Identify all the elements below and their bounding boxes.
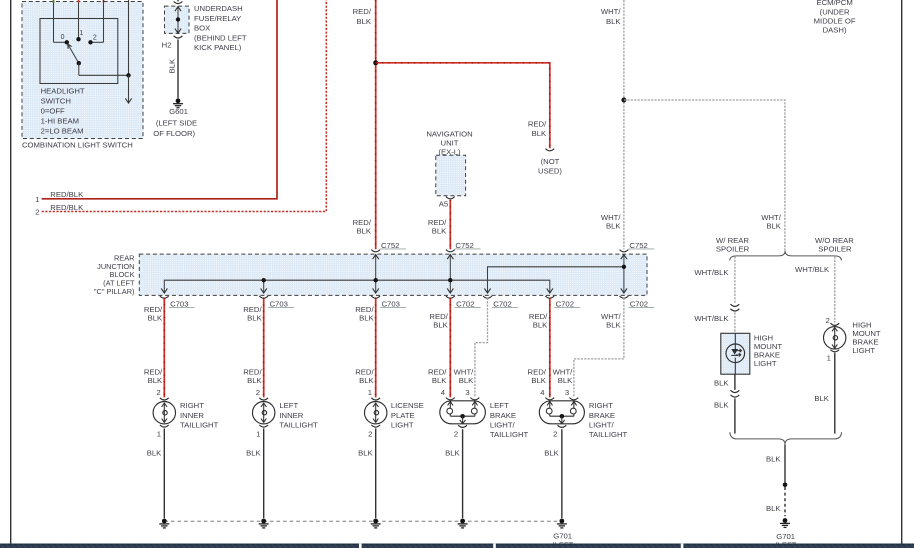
connector C752 entry arc left [371,250,380,252]
svg-text:DASH): DASH) [823,26,847,35]
svg-text:LICENSE: LICENSE [391,401,424,410]
svg-text:H2: H2 [162,41,172,50]
svg-text:WHT/: WHT/ [601,312,622,321]
fuse element with arrows and node [175,7,181,12]
wire WHT/BLK from C702 to left brake light [475,298,488,398]
ground symbol at x=462.6 [460,519,465,524]
svg-text:WHT/: WHT/ [601,7,622,16]
svg-text:MIDDLE OF: MIDDLE OF [814,16,856,25]
connector arc above fuse box [177,0,179,1]
svg-text:INNER: INNER [180,411,204,420]
svg-text:BLK: BLK [533,321,548,330]
ground G701 right [783,518,788,523]
svg-text:BLK: BLK [148,376,163,385]
svg-text:WHT/BLK: WHT/BLK [694,314,729,323]
switch common wire from top [128,0,130,75]
svg-text:BRAKE: BRAKE [490,411,516,420]
svg-text:BLK: BLK [558,376,573,385]
svg-text:2: 2 [368,429,372,438]
junction node on WHT/BLK trunk [621,98,626,103]
headlight switch inner box [40,19,118,84]
junction node on common wire [126,73,130,77]
svg-text:SPOILER: SPOILER [818,244,852,253]
svg-text:1: 1 [157,429,161,438]
svg-text:BLK: BLK [356,226,371,235]
ground bus dashed to G701 [164,520,562,522]
svg-text:BOX: BOX [194,24,210,33]
svg-text:RED/: RED/ [529,312,548,321]
terminal 1 node [76,37,80,41]
svg-text:1: 1 [35,195,39,204]
svg-text:BLK: BLK [766,454,781,463]
underdash fuse/relay box [165,6,190,33]
svg-text:RIGHT: RIGHT [180,401,204,410]
wire BLK to ground at x=164.3 [163,429,165,519]
svg-text:1: 1 [368,388,372,397]
svg-text:3: 3 [565,388,569,397]
wire BLK to merge brace [734,398,736,433]
svg-text:ECM/PCM: ECM/PCM [816,0,852,7]
terminal 0 node [65,40,69,44]
wire BLK right branch to merge brace [834,353,836,434]
brake/taillight dual bulb at x=462.6 [446,398,455,400]
internal wire C752 to C702 at 623.9 [623,255,625,293]
wire RED/BLK from junction block at x=375.7 [375,298,377,398]
svg-text:HEADLIGHT: HEADLIGHT [41,87,85,96]
svg-text:1: 1 [827,353,831,362]
wire RED/BLK from junction block at x=549.8 [549,298,551,398]
svg-text:BLK: BLK [714,379,729,388]
svg-text:BLK: BLK [359,314,374,323]
svg-text:LIGHT: LIGHT [754,359,777,368]
ground symbol at x=375.7 [373,519,378,524]
high mount brake light bulb w/o spoiler [830,323,839,325]
connector C702 exit arc 4 [620,296,629,298]
svg-text:(LEFT SIDE: (LEFT SIDE [156,119,197,128]
svg-text:2: 2 [553,429,557,438]
svg-text:4: 4 [441,388,446,397]
wire RED/BLK from junction block at x=263.7 [263,298,265,398]
svg-text:2: 2 [93,34,97,41]
svg-text:BLK: BLK [606,321,621,330]
svg-text:LIGHT: LIGHT [391,420,414,429]
svg-text:"C" PILLAR): "C" PILLAR) [94,287,135,296]
svg-text:TAILLIGHT: TAILLIGHT [279,420,318,429]
svg-text:RED/: RED/ [144,305,163,314]
connector C702 exit arc 1 [446,296,455,298]
LED lamp symbol [726,344,745,363]
bottom toolbar [0,544,914,548]
svg-text:LIGHT/: LIGHT/ [490,420,516,429]
svg-text:BLK: BLK [359,376,374,385]
taillight bulb at x=375.7 [371,398,380,400]
svg-text:0=OFF: 0=OFF [41,107,65,116]
svg-text:INNER: INNER [279,411,303,420]
svg-text:BLK: BLK [445,448,460,457]
connector C702 exit arc 3 [545,296,554,298]
wiper output wire [78,63,80,75]
rear junction block box [139,254,647,295]
svg-text:BLK: BLK [247,314,262,323]
wire RED/BLK from junction block at x=164.3 [163,298,165,398]
svg-text:BLK: BLK [432,226,447,235]
svg-text:UNDERDASH: UNDERDASH [194,4,243,13]
svg-text:RIGHT: RIGHT [589,401,613,410]
svg-text:LEFT: LEFT [279,401,298,410]
svg-text:2=LO BEAM: 2=LO BEAM [41,127,84,136]
wire BLK from merge to junction node [784,445,786,483]
junction block internal bus 1 [164,280,550,292]
wire BLK to ground at x=375.7 [375,429,377,519]
dashed BLK wire to ground [784,487,786,516]
svg-text:G601: G601 [169,107,188,116]
svg-text:SPOILER: SPOILER [716,244,750,253]
svg-text:BLK: BLK [606,17,621,26]
wire break connector arcs 2 [731,390,740,392]
spoiler branch split brace [730,251,842,261]
wire WHT/BLK trunk from top [623,0,625,249]
svg-text:RED/BLK: RED/BLK [50,203,84,212]
high mount brake light LED box [721,333,750,374]
svg-text:BLK: BLK [766,504,781,513]
svg-text:USED): USED) [538,167,562,176]
svg-text:1-HI BEAM: 1-HI BEAM [41,117,79,126]
junction block internal bus 2 [488,267,624,293]
ground symbol at x=263.7 [261,519,266,524]
wire RED/BLK main trunk from top [375,0,377,249]
svg-text:LIGHT/: LIGHT/ [589,420,615,429]
wire into switch terminal 2 (dark red feed) [103,0,105,3]
svg-text:BLK: BLK [433,321,448,330]
wire continuing down with arrow [128,75,130,102]
svg-text:WHT/BLK: WHT/BLK [795,265,830,274]
svg-text:OF FLOOR): OF FLOOR) [153,129,195,138]
junction node on red trunk [373,60,378,65]
svg-text:BLK: BLK [356,17,371,26]
wire WHT/BLK into high mount brake light [734,312,736,344]
svg-text:A5: A5 [439,200,448,209]
svg-text:BLK: BLK [532,129,547,138]
svg-text:0: 0 [61,34,65,41]
svg-text:BLK: BLK [714,400,729,409]
svg-text:NAVIGATION: NAVIGATION [426,129,472,138]
svg-text:2: 2 [35,208,39,217]
taillight bulb at x=164.3 [160,398,169,400]
svg-text:4: 4 [540,388,545,397]
svg-text:SWITCH: SWITCH [41,97,71,106]
svg-text:BLK: BLK [147,448,162,457]
svg-text:RED/: RED/ [528,119,547,128]
svg-text:TAILLIGHT: TAILLIGHT [180,420,219,429]
svg-text:(NOT: (NOT [541,157,560,166]
bus junction nodes [262,278,266,282]
connector C752 entry arc middle [446,250,455,252]
merge brace [730,432,842,444]
svg-text:(UNDER: (UNDER [820,7,850,16]
taillight bulb at x=263.7 [259,398,268,400]
svg-text:RED/: RED/ [429,312,448,321]
svg-text:BLK: BLK [432,376,447,385]
svg-text:BLK: BLK [606,222,621,231]
combination light switch box [22,2,143,139]
ground symbol at x=164.3 [162,519,167,524]
svg-text:3: 3 [465,388,469,397]
wire break connector arcs [731,304,740,306]
svg-text:TAILLIGHT: TAILLIGHT [589,430,628,439]
svg-text:BLK: BLK [544,448,559,457]
svg-text:2: 2 [256,388,260,397]
wire RED/BLK from navigation unit [449,200,451,250]
svg-text:TAILLIGHT: TAILLIGHT [490,430,529,439]
wire BLK from led box [734,374,736,390]
navigation unit box [436,155,466,196]
not used terminal arc [545,149,554,151]
svg-text:G701: G701 [553,532,572,541]
svg-text:BLK: BLK [766,222,781,231]
svg-text:BLK: BLK [531,376,546,385]
junction node on ground wire [783,483,788,488]
wire BLK to ground at x=561.85 [561,429,563,518]
wire into switch terminal 1 (red feed) [78,0,80,3]
svg-text:RED/BLK: RED/BLK [50,190,84,199]
svg-text:LIGHT: LIGHT [852,346,875,355]
svg-text:RED/: RED/ [353,7,372,16]
internal exit arrows [263,280,265,292]
svg-text:FUSE/RELAY: FUSE/RELAY [194,14,241,23]
left border frame line [10,0,12,544]
wire 2 RED/BLK horizontal dotted [42,0,327,212]
brake/taillight dual bulb at x=561.8499999999999 [545,398,554,400]
svg-text:2: 2 [156,388,160,397]
svg-text:COMBINATION LIGHT SWITCH: COMBINATION LIGHT SWITCH [22,140,133,149]
svg-text:UNIT: UNIT [441,138,459,147]
wire 1 RED/BLK horizontal [42,0,277,199]
svg-text:LEFT: LEFT [490,401,509,410]
svg-text:1: 1 [79,30,83,37]
svg-text:BLK: BLK [247,376,262,385]
svg-text:BLK: BLK [168,58,177,73]
ground G601 [176,98,181,103]
svg-text:WHT/BLK: WHT/BLK [694,268,729,277]
wire WHT/BLK from C702 to right brake light [574,298,624,398]
ground symbol at x=561.85 [559,519,564,524]
internal wire C752 to C703 at 375.7 [375,255,377,293]
svg-text:BLK: BLK [814,394,829,403]
svg-text:2: 2 [826,316,830,325]
connector C703 exit arc 2 [259,296,268,298]
connector C752 entry arc right [620,250,629,252]
svg-text:1: 1 [256,429,260,438]
wire BLK to ground at x=263.7 [263,429,265,519]
right border frame line [901,0,903,544]
internal wire C752 to C702 at 450.3 [449,255,451,293]
wire WHT/BLK w/ rear spoiler branch [734,256,736,303]
terminal 2 node [88,40,92,44]
svg-text:RED/: RED/ [243,305,262,314]
svg-text:(BEHIND LEFT: (BEHIND LEFT [194,33,247,42]
switch lever wiper [68,44,79,63]
connector A5 arc [446,197,455,199]
svg-text:2: 2 [454,429,458,438]
svg-text:PLATE: PLATE [391,411,415,420]
svg-text:BLK: BLK [459,376,474,385]
branch wire WHT/BLK to spoiler split [624,100,785,251]
connector C703 exit arc 1 [160,296,169,298]
svg-text:KICK PANEL): KICK PANEL) [194,43,242,52]
svg-text:BLK: BLK [358,448,373,457]
wire BLK to ground at x=462.6 [462,429,464,518]
connector C702 exit arc 2 [483,296,492,298]
wire WHT/BLK w/o rear spoiler branch [834,256,836,322]
wire BLK from fuse box to ground G601 [177,40,179,99]
svg-text:BLK: BLK [246,448,261,457]
branch wire RED/BLK to not-used stub [376,63,550,148]
svg-text:RED/: RED/ [355,305,374,314]
wire into switch terminal 0 (green feed) [53,0,55,3]
svg-text:BRAKE: BRAKE [589,411,615,420]
connector H2 arc below fuse box [174,36,183,38]
svg-text:BLK: BLK [148,314,163,323]
wire RED/BLK from junction block at x=450.3 [449,298,451,398]
connector C703 exit arc 3 [371,296,380,298]
